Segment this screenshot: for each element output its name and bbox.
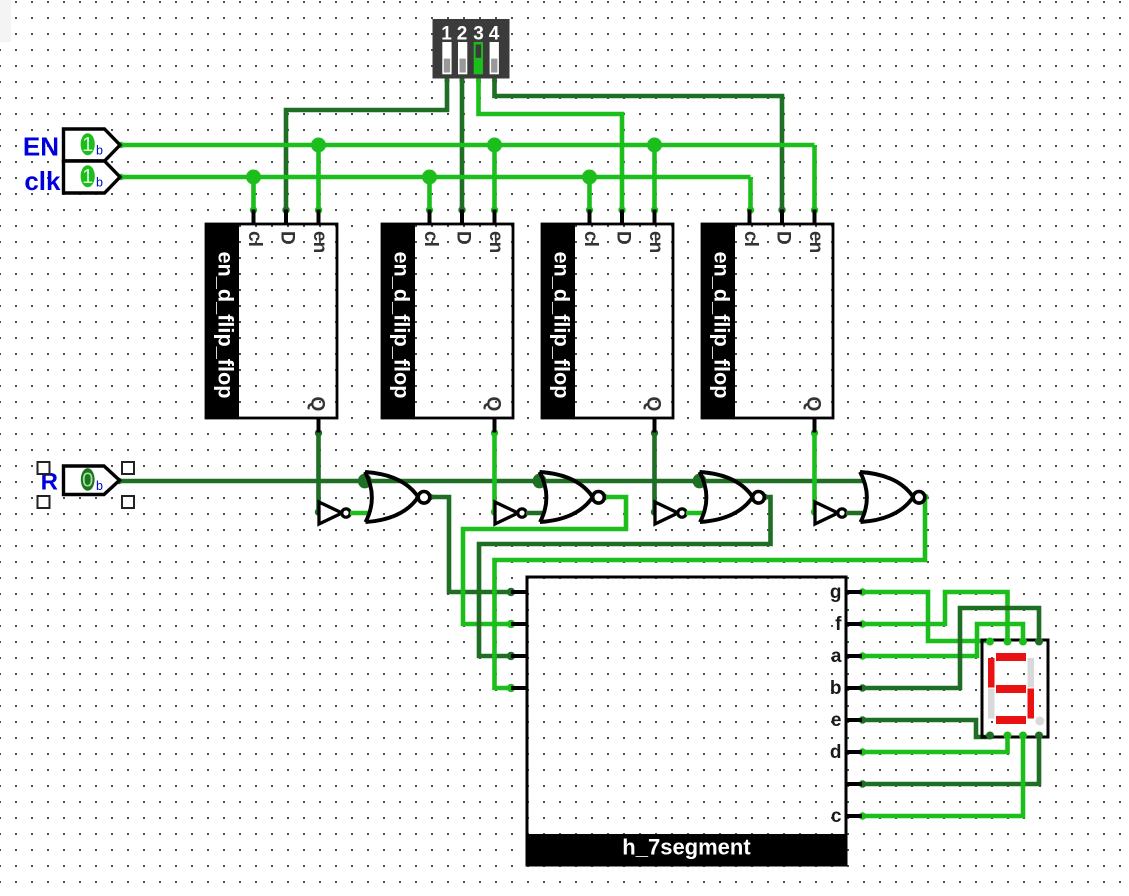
flip-flop U2 en_d_flip_flop [382,210,513,433]
svg-text:h_7segment: h_7segment [622,835,751,860]
svg-text:Q: Q [483,397,504,412]
wire U2 Q to inverter G2A [491,429,498,515]
DIP switch SW1 [433,19,510,79]
wire clk drop to U4 cl [747,177,754,214]
input pin EN [23,129,120,162]
NOR gate G1 [365,472,430,522]
svg-text:a: a [831,646,842,667]
inverter G4A [815,502,846,524]
junction R-G1 [358,474,372,489]
svg-text:g: g [830,582,842,603]
svg-text:en_d_flip_flop: en_d_flip_flop [390,252,415,399]
svg-text:b: b [96,176,103,190]
wire EN drop to U2 en [491,145,498,214]
wire inverter G1A output [350,511,371,515]
input pin clk [24,161,120,196]
wire G4 output to decoder input 4 [495,494,929,692]
svg-text:en_d_flip_flop: en_d_flip_flop [710,252,735,399]
wire e segment [859,716,990,737]
svg-text:D: D [613,231,634,245]
wire R net horizontal [116,478,864,484]
input pin R [41,466,120,496]
flip-flop U4 en_d_flip_flop [702,210,833,433]
junction EN-U2en [487,138,502,153]
svg-text:d: d [830,742,842,763]
inverter G2A [495,502,526,524]
svg-text:b: b [830,678,842,699]
wire clk drop to U1 cl [250,177,257,214]
wire f segment [859,592,1008,640]
wire dp pin [859,737,1039,788]
svg-text:Q: Q [643,397,664,412]
svg-text:1: 1 [441,24,452,45]
svg-text:0: 0 [82,469,93,491]
wire G3 output to decoder input 3 [479,494,771,660]
flip-flop U3 en_d_flip_flop [542,210,673,433]
wire U3 Q to inverter G3A [651,429,658,515]
svg-text:b: b [96,144,103,158]
NOR gate G3 [700,472,765,522]
svg-text:cl: cl [580,231,601,247]
wire inverter G2A output [526,511,545,515]
svg-text:cl: cl [740,231,761,247]
svg-text:4: 4 [489,24,500,45]
7-segment display DS1 [982,638,1048,740]
svg-text:D: D [453,231,474,245]
wire EN drop to U1 en [315,145,322,214]
junction clk-U3cl [582,170,597,185]
wire EN net horizontal [118,142,815,148]
svg-text:clk: clk [24,166,61,196]
junction clk-U1cl [246,170,261,185]
svg-text:Q: Q [803,397,824,412]
wire inverter G3A output [686,511,705,515]
wire c segment [859,737,1023,820]
wire clk drop to U2 cl [426,177,433,214]
wire G1 output to decoder input 1 [427,494,515,596]
svg-text:en_d_flip_flop: en_d_flip_flop [214,252,239,399]
wire EN drop to U4 en [811,145,818,214]
svg-text:cl: cl [420,231,441,247]
decoder X1 h_7segment [511,577,862,865]
svg-text:D: D [773,231,794,245]
svg-text:e: e [831,710,842,731]
junction clk-U2cl [422,170,437,185]
svg-text:Q: Q [307,397,328,412]
junction EN-U1en [311,138,326,153]
svg-text:2: 2 [457,24,468,45]
svg-text:en: en [645,231,666,253]
wire EN drop to U3 en [651,145,658,214]
wire inverter G4A output [846,511,866,515]
NOR gate G2 [540,472,605,522]
NOR gate G4 [860,472,925,522]
wire U1 Q to inverter G1A [315,429,322,515]
selection handles around R [38,462,135,508]
wire G2 output to decoder input 2 [463,494,626,628]
wire a segment [859,624,1023,660]
inverter G3A [655,502,686,524]
svg-text:en: en [485,231,506,253]
svg-text:1: 1 [82,134,93,156]
wire g segment [859,588,990,641]
wire clk drop to U3 cl [586,177,593,214]
wire from DIP pin 2 to U2 D [458,78,465,214]
junction EN-U3en [647,138,662,153]
wire from DIP pin 3 to U3 D [476,78,626,214]
svg-text:EN: EN [23,132,59,162]
svg-text:b: b [96,479,103,493]
svg-text:3: 3 [473,24,484,45]
svg-text:en: en [309,231,330,253]
svg-text:en_d_flip_flop: en_d_flip_flop [550,252,575,399]
wire b segment [859,608,1039,692]
inverter G1A [319,502,350,524]
svg-text:f: f [835,614,842,635]
wire from DIP pin 4 to U4 D [492,78,786,214]
svg-text:cl: cl [244,231,265,247]
svg-text:en: en [805,231,826,253]
wire clk net horizontal [118,174,751,180]
svg-text:c: c [831,806,842,827]
wire U4 Q to inverter G4A [811,429,818,515]
junction R-G2 [533,474,547,489]
junction R-G3 [693,474,707,489]
flip-flop U1 en_d_flip_flop [206,210,337,433]
svg-text:D: D [277,231,298,245]
wire from DIP pin 1 to U1 D [282,78,449,214]
wire d segment [859,737,1008,756]
svg-text:1: 1 [82,166,93,188]
